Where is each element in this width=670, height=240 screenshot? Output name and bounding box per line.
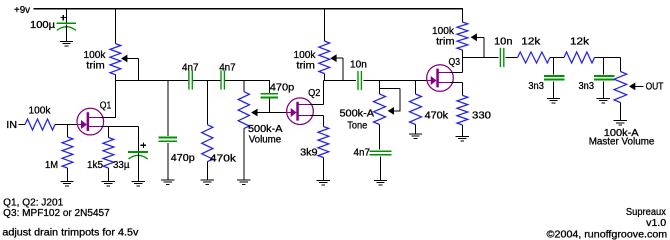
- wire trim2 wiper down: [342, 58, 344, 81]
- wire tone pot stem: [379, 81, 381, 95]
- label 12k 1: [521, 37, 541, 48]
- wire output line c: [550, 57, 564, 59]
- label 100k-A master: [604, 128, 639, 139]
- svg-text:4n7: 4n7: [219, 63, 236, 74]
- ground below 470p1: [161, 180, 174, 185]
- label Volume: [249, 135, 282, 146]
- wire 33u stem: [137, 127, 139, 152]
- ground below 330: [456, 136, 469, 141]
- resistor R 330 body: [457, 95, 468, 125]
- trimpot R 100k trim 1 body: [110, 44, 121, 75]
- label 1M: [45, 160, 58, 171]
- wire 470p2 stem: [268, 98, 270, 113]
- resistor R 470k 2 body: [410, 94, 422, 125]
- label 4n7 1: [182, 63, 199, 74]
- master wiper arrow OUT: [629, 83, 643, 91]
- wire tone pot to 4n7: [379, 125, 381, 150]
- potentiometer R 100k-A master body: [614, 72, 627, 103]
- trimpot R 100k trim 3 body: [457, 22, 468, 50]
- svg-text:3k9: 3k9: [300, 148, 318, 159]
- svg-text:500k-A: 500k-A: [340, 109, 375, 120]
- svg-text:470p: 470p: [171, 153, 195, 164]
- wire trim2 bottom lead: [323, 74, 325, 82]
- svg-text:©2004, runoffgroove.com: ©2004, runoffgroove.com: [547, 229, 668, 240]
- trim2 wiper arrow: [330, 54, 343, 62]
- transistor Q1 J201 symbol: [77, 108, 104, 135]
- resistor R 100k input body: [25, 119, 55, 130]
- wire output line d: [595, 58, 621, 72]
- wire corner down to 470p2: [268, 80, 270, 94]
- svg-text:10n: 10n: [494, 37, 513, 48]
- polarity plus sign 33u: [141, 142, 147, 148]
- svg-text:100µ: 100µ: [30, 20, 55, 31]
- label 330: [472, 111, 491, 122]
- wire stage2 line b: [363, 80, 427, 82]
- wire stage2 line a: [323, 80, 356, 82]
- wire rail to trim2: [323, 9, 325, 41]
- capacitor C 33u body: [128, 152, 148, 181]
- resistor R 3k9 body: [318, 127, 329, 158]
- wire output line a: [462, 57, 498, 59]
- title Supreaux: [626, 207, 666, 218]
- label trim trim3: [436, 37, 455, 48]
- svg-text:470k: 470k: [210, 154, 237, 165]
- wire +9v power rail: [34, 8, 463, 10]
- label 1k5: [87, 160, 103, 171]
- wire trim1 bottom lead: [114, 75, 116, 81]
- capacitor C 100u filter body: [57, 9, 77, 41]
- wire 470p1 stem: [167, 80, 169, 136]
- label 33u: [113, 160, 130, 171]
- title version: [646, 218, 666, 229]
- wire Q2 source: [310, 116, 323, 127]
- capacitor C 470p 1 body: [159, 138, 178, 142]
- label 100k trim1: [84, 50, 107, 61]
- polarity plus sign 100u: [60, 15, 66, 21]
- wire 1k5 to ground: [107, 168, 109, 181]
- capacitor C 10n 1 body: [358, 71, 361, 90]
- svg-text:v1.0: v1.0: [646, 218, 666, 229]
- ground below volume pot: [237, 180, 250, 185]
- wire Q1 source line: [101, 126, 138, 128]
- svg-text:10n: 10n: [350, 59, 367, 70]
- wire volume pot to ground: [243, 129, 245, 180]
- wire 1M stem: [67, 124, 69, 137]
- potentiometer R 500k-A volume body: [238, 92, 249, 129]
- svg-text:1M: 1M: [45, 160, 58, 171]
- tone wiper arrow: [388, 107, 401, 115]
- svg-text:+9v: +9v: [14, 5, 30, 16]
- volume wiper arrow: [251, 109, 287, 117]
- svg-text:Q3: MPF102 or 2N5457: Q3: MPF102 or 2N5457: [3, 208, 110, 219]
- svg-text:trim: trim: [296, 61, 315, 72]
- wire 470k1 to ground: [206, 162, 208, 180]
- capacitor C 10n 2 body: [500, 48, 503, 67]
- svg-text:Q1, Q2: J201: Q1, Q2: J201: [3, 198, 63, 209]
- wire tone wiper up and over: [380, 89, 401, 111]
- wire 3n3-2 to ground: [602, 81, 604, 98]
- wire 1k5 stem: [107, 127, 109, 138]
- svg-text:Q2: Q2: [308, 88, 321, 99]
- svg-text:IN: IN: [6, 120, 17, 131]
- svg-text:12k: 12k: [521, 37, 541, 48]
- wire trim1 wiper down: [138, 59, 140, 82]
- label OUT: [646, 81, 664, 92]
- wire 3n3-2 stem: [602, 58, 604, 75]
- wire stage1 drain line a: [115, 80, 188, 82]
- label 10n 2: [494, 37, 513, 48]
- capacitor C 4n7 2 body: [221, 70, 224, 89]
- label 4n7 3: [354, 147, 371, 158]
- svg-text:100k: 100k: [432, 26, 455, 37]
- transistor Q3 symbol: [426, 65, 453, 92]
- label +9v supply: [14, 5, 30, 16]
- svg-text:470p: 470p: [270, 83, 295, 94]
- ground below 470k1: [201, 180, 214, 185]
- svg-text:330: 330: [472, 111, 491, 122]
- svg-text:100k: 100k: [84, 50, 107, 61]
- resistor R 470k 1 body: [202, 125, 213, 162]
- svg-text:100k: 100k: [294, 50, 317, 61]
- wire 1M to ground: [67, 168, 69, 181]
- wire Q1 drain up to trim1: [101, 81, 115, 119]
- ground below 1M: [60, 181, 73, 186]
- wire trim3 wiper down: [483, 37, 485, 58]
- wire 4n7-3 to ground: [380, 157, 382, 181]
- svg-text:trim: trim: [436, 37, 455, 48]
- wire 3n3-1 stem: [553, 58, 555, 75]
- ground below master pot: [614, 121, 627, 126]
- wire stage1 drain line c: [225, 80, 269, 82]
- label trim trim2: [296, 61, 315, 72]
- svg-text:12k: 12k: [570, 37, 590, 48]
- label 470k 2: [425, 111, 450, 122]
- svg-text:Tone: Tone: [347, 120, 367, 131]
- capacitor C 470p 2 body: [261, 94, 278, 98]
- resistor R 1k5 body: [103, 138, 114, 169]
- wire Q3 drain up to trim3: [450, 50, 462, 73]
- ground below 100u: [60, 41, 73, 46]
- label 100k trim2: [294, 50, 317, 61]
- wire 3k9 to ground: [322, 158, 324, 181]
- wire Q3 source down: [450, 83, 462, 96]
- label 3n3 2: [579, 81, 595, 92]
- wire 470k1 stem: [206, 80, 208, 125]
- note adjust trimpots: [2, 227, 138, 238]
- svg-text:100k: 100k: [29, 106, 52, 117]
- label 100u: [30, 20, 55, 31]
- svg-text:470k: 470k: [425, 111, 450, 122]
- wire IN lead: [19, 124, 26, 126]
- svg-text:adjust drain trimpots for 4.5v: adjust drain trimpots for 4.5v: [2, 227, 138, 238]
- trim1 wiper arrow: [121, 55, 138, 63]
- ground below 3n3-2: [597, 98, 610, 103]
- ground below 3k9: [317, 180, 330, 185]
- resistor R 1M body: [62, 137, 73, 168]
- label 3n3 1: [528, 81, 544, 92]
- label 500k-A volume: [248, 124, 283, 135]
- svg-text:33µ: 33µ: [113, 160, 130, 171]
- svg-text:Q3: Q3: [449, 57, 461, 68]
- label trim trim1: [86, 61, 105, 72]
- svg-text:trim: trim: [86, 61, 105, 72]
- svg-text:OUT: OUT: [646, 81, 664, 92]
- wire rail to trim1: [114, 9, 116, 44]
- wire output line b: [506, 57, 518, 59]
- note transistor types line1: [3, 198, 63, 209]
- label Tone: [347, 120, 367, 131]
- svg-text:3n3: 3n3: [579, 81, 595, 92]
- ground below 33u: [132, 181, 145, 186]
- label 470p 2: [270, 83, 295, 94]
- svg-text:3n3: 3n3: [528, 81, 544, 92]
- label Q1: [100, 101, 112, 112]
- svg-text:4n7: 4n7: [354, 147, 371, 158]
- ground below 470k2: [409, 134, 422, 139]
- wire stage1 drain line b: [193, 80, 220, 82]
- label 470k 1: [210, 154, 237, 165]
- svg-text:Supreaux: Supreaux: [626, 207, 666, 218]
- label Q2: [308, 88, 321, 99]
- wire input to Q1 gate: [55, 124, 78, 126]
- svg-text:Volume: Volume: [249, 135, 282, 146]
- svg-text:1k5: 1k5: [87, 160, 103, 171]
- label 3k9: [300, 148, 318, 159]
- svg-text:4n7: 4n7: [182, 63, 199, 74]
- wire master pot to ground: [619, 103, 621, 121]
- capacitor C 4n7 3 body: [369, 151, 391, 155]
- wire volume pot stem: [243, 80, 245, 92]
- wire Q2 drain up: [310, 81, 323, 105]
- trimpot R 100k trim 2 body: [319, 41, 330, 74]
- label 4n7 2: [219, 63, 236, 74]
- label 10n 1: [350, 59, 367, 70]
- capacitor C 3n3 1 body: [544, 76, 565, 80]
- resistor R 12k 1 body: [518, 52, 551, 63]
- label 100k input: [29, 106, 52, 117]
- capacitor C 4n7 1 body: [189, 70, 192, 89]
- wire rail corner into trim3: [461, 8, 463, 22]
- label 470p 1: [171, 153, 195, 164]
- wire 330 to ground: [461, 125, 463, 136]
- label Master Volume: [589, 137, 655, 148]
- potentiometer R 500k-A tone body: [374, 94, 386, 125]
- wire 470k2 stem: [415, 81, 417, 95]
- note transistor types line2: [3, 208, 110, 219]
- wire 470p1 to ground: [167, 143, 169, 180]
- label Q3: [449, 57, 461, 68]
- ground below 4n7-3: [374, 180, 387, 185]
- capacitor C 3n3 2 body: [594, 76, 615, 80]
- svg-text:Master Volume: Master Volume: [589, 137, 655, 148]
- label IN: [6, 120, 17, 131]
- wire 3n3-1 to ground: [553, 81, 555, 98]
- trim3 wiper arrow: [471, 33, 484, 41]
- title copyright: [547, 229, 668, 240]
- svg-text:Q1: Q1: [100, 101, 112, 112]
- ground below 3n3-1: [547, 98, 560, 103]
- label 500k-A tone: [340, 109, 375, 120]
- transistor Q2 J201 symbol: [286, 98, 313, 125]
- resistor R 12k 2 body: [564, 52, 595, 63]
- label 12k 2: [570, 37, 590, 48]
- svg-text:500k-A: 500k-A: [248, 124, 283, 135]
- wire 470k2 to ground: [415, 125, 417, 134]
- label 100k trim3: [432, 26, 455, 37]
- ground below 1k5: [102, 181, 115, 186]
